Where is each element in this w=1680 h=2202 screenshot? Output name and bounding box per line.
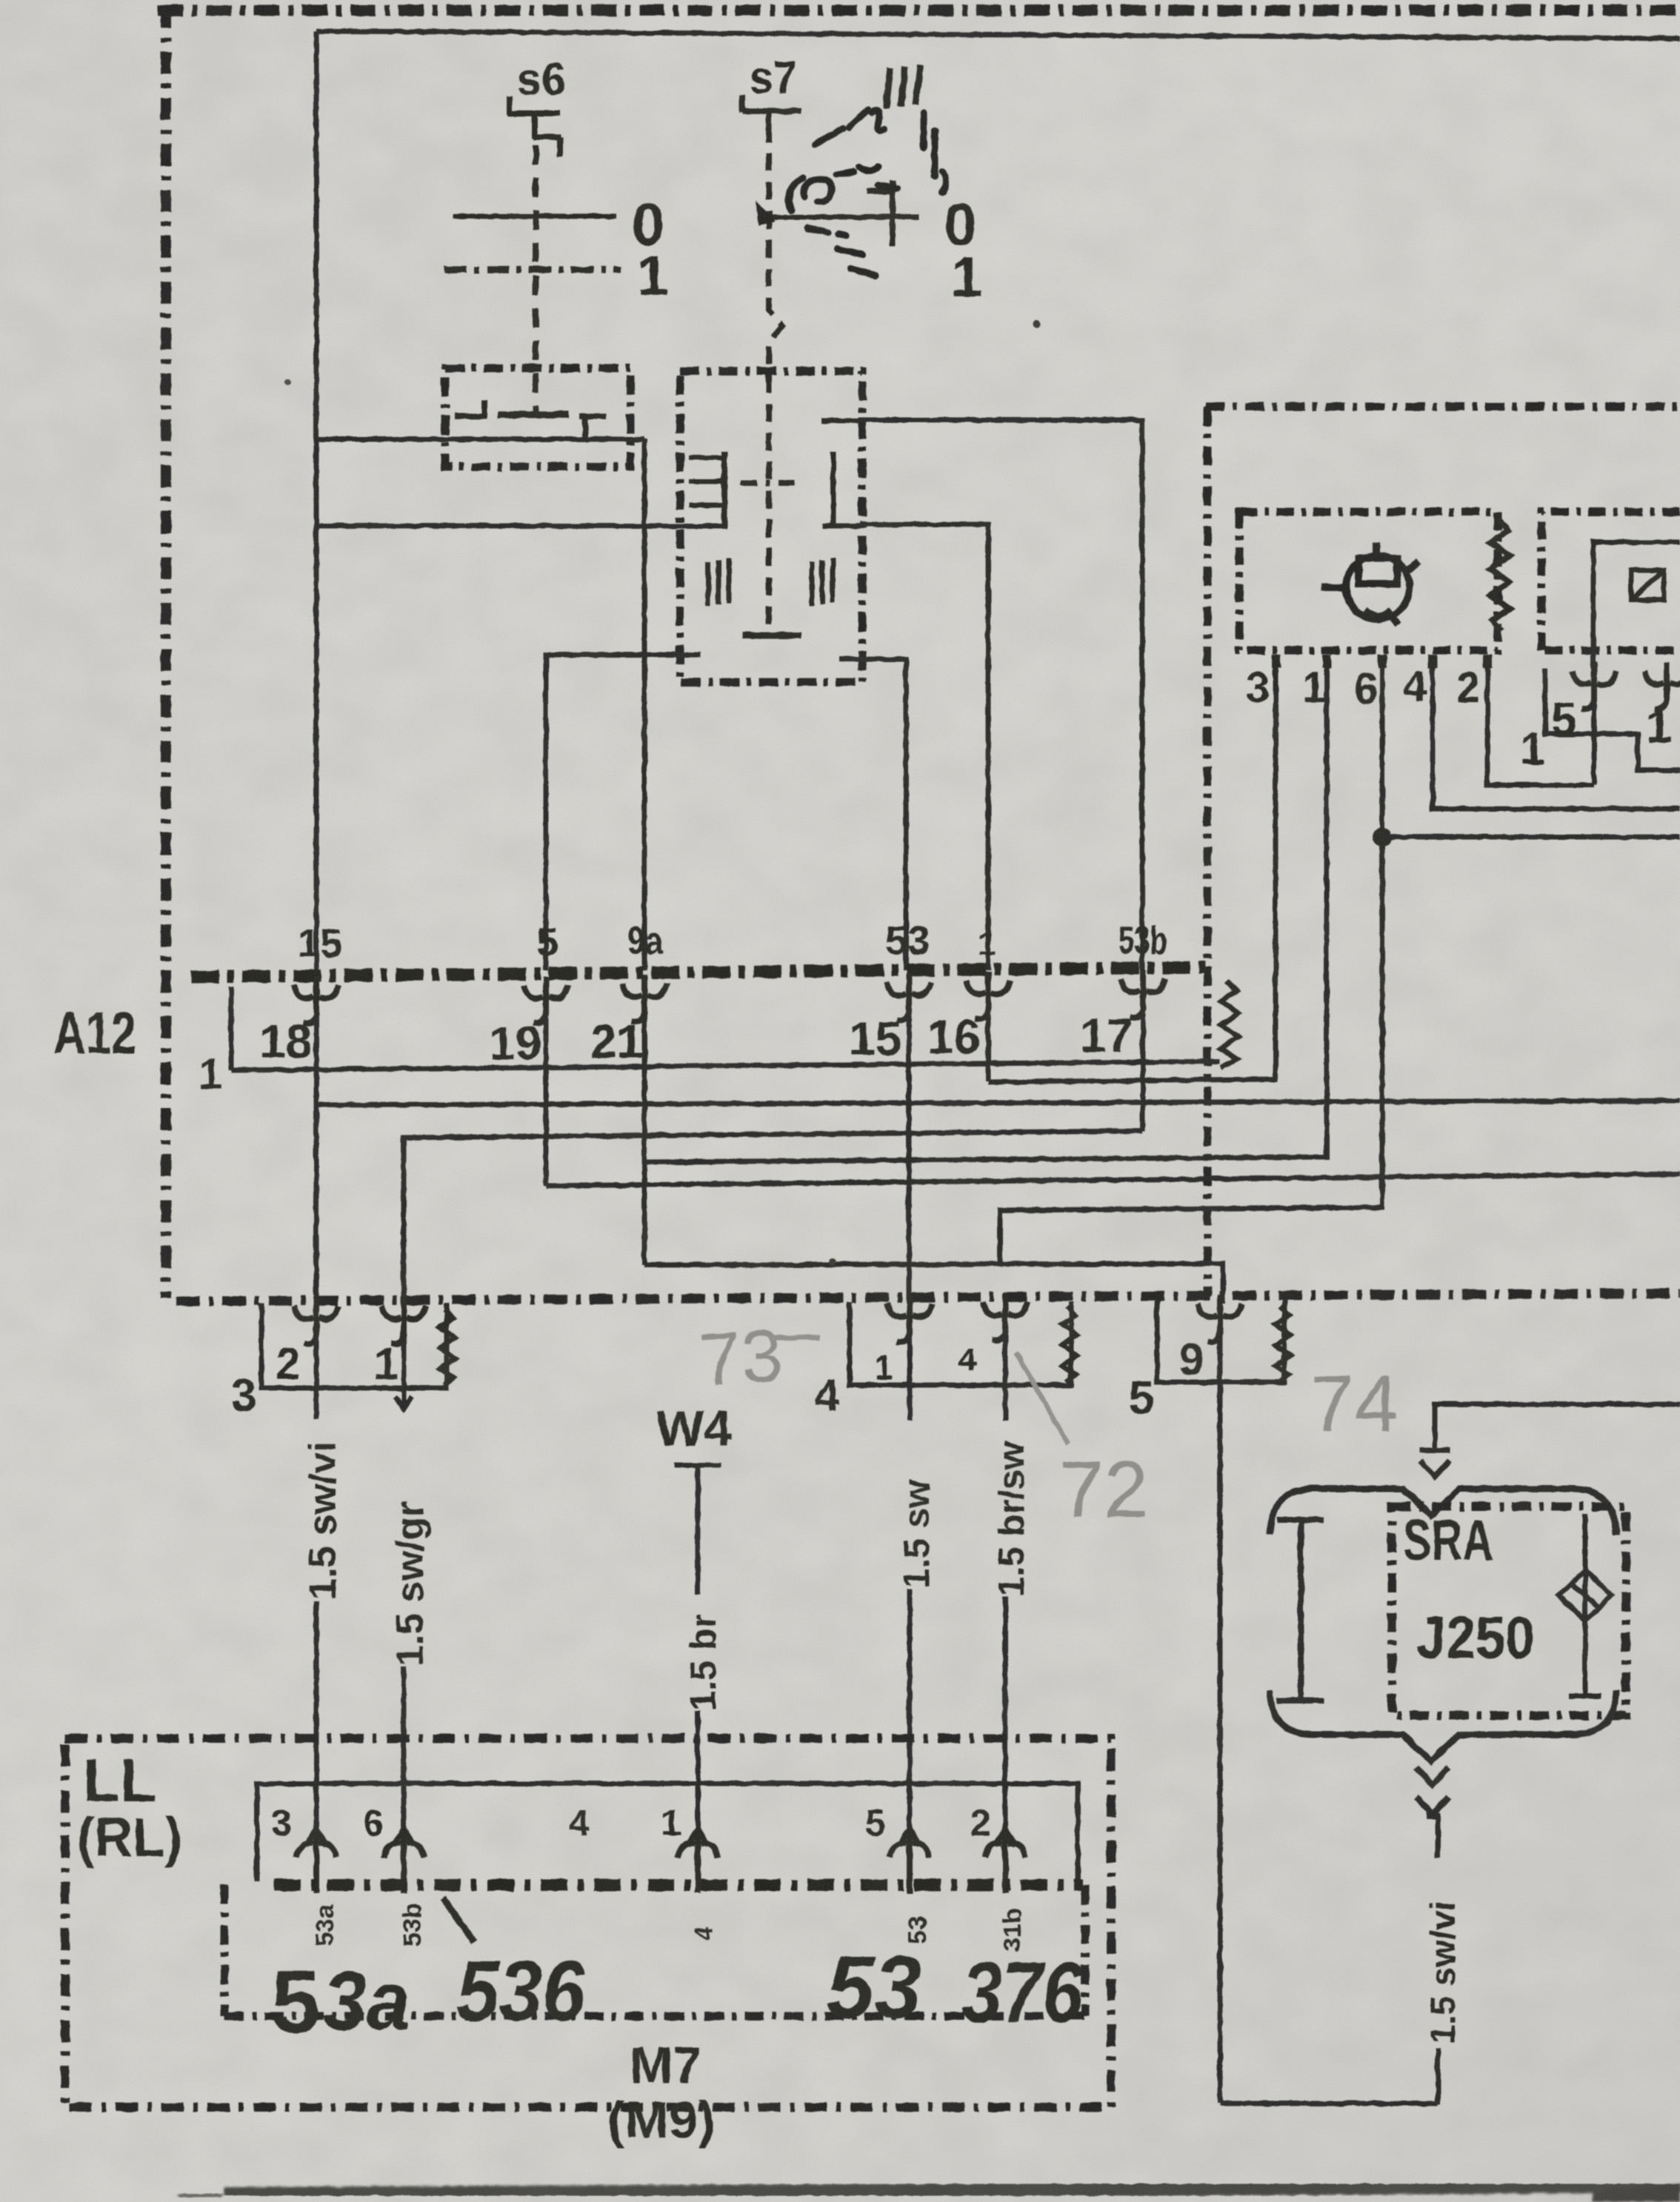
bracket pin (sw) connector bbox=[887, 1295, 932, 1342]
s7 unit internal dash-dot link bbox=[741, 480, 804, 486]
A12 box left dashed border bbox=[161, 6, 171, 1298]
M7 pin 3 arrow bbox=[296, 1829, 336, 1893]
bottom photo edge band bbox=[224, 2185, 1680, 2195]
W4 terminal bar bbox=[674, 1465, 721, 1594]
M7 connector dashed strip bbox=[274, 1879, 1083, 1891]
s7 terminal bracket bbox=[742, 95, 801, 126]
bracket pin (br/sw) connector bbox=[983, 1293, 1027, 1341]
heater pin 1 connector bbox=[1644, 662, 1680, 710]
wire sw upper segment bbox=[907, 1330, 913, 1421]
washer heater solid box bbox=[1593, 542, 1680, 668]
s7 position 0 line bbox=[758, 215, 919, 220]
SRA bottom bracket bbox=[1270, 1690, 1616, 1761]
bracket pin 9 connector bbox=[1198, 1295, 1242, 1342]
middle bracket resistor squiggle bbox=[1062, 1307, 1077, 1382]
LL box dash-dot outline bbox=[65, 1738, 1111, 2107]
s7 unit hatch marks right bbox=[812, 558, 833, 606]
s6 position 1 dash-dot line bbox=[444, 267, 621, 273]
pin 16 connector bbox=[966, 972, 1010, 1019]
A12 box right inner dash-dot border bbox=[1204, 407, 1212, 1296]
A12 box bottom dashed border bbox=[176, 1293, 1680, 1301]
wire sw lower segment bbox=[907, 1589, 913, 1829]
wire pin1 to resistor foot bbox=[231, 1061, 1219, 1070]
pin 15 connector bbox=[887, 973, 931, 1021]
motor pin4 wire bbox=[1433, 668, 1680, 809]
SRA top bracket bbox=[1270, 1489, 1616, 1535]
s6 terminal bracket bbox=[508, 96, 561, 156]
ink speck 3 bbox=[829, 1258, 836, 1266]
second unit dash-dot box bbox=[1541, 512, 1680, 650]
wire pin15 column bbox=[907, 1010, 912, 1304]
9a riser wire bbox=[642, 439, 647, 970]
heater pin 5 connector bbox=[1572, 662, 1616, 710]
s6 contact moving bar bbox=[498, 412, 569, 418]
SRA bottom chevrons bbox=[1416, 1767, 1449, 1816]
wire s7 unit to 5 riser bbox=[546, 655, 701, 970]
M7 pin 6 arrow bbox=[384, 1829, 424, 1893]
SRA dash-dot box bbox=[1392, 1507, 1626, 1715]
wire SRA drop lower bbox=[1436, 2049, 1441, 2104]
s7 illumination lamp scribble bbox=[761, 110, 946, 276]
handwritten tick bbox=[443, 1898, 474, 1942]
s7 dashed actuating rod with kink bbox=[769, 124, 782, 631]
pencil stroke above 72 bbox=[1016, 1352, 1068, 1444]
wire pin18 column bbox=[314, 1013, 319, 1304]
wiper motor symbol bbox=[1321, 542, 1419, 625]
SRA top connector chevron bbox=[1420, 1450, 1450, 1477]
heater element symbol bbox=[1631, 570, 1664, 600]
assembly box top border bbox=[1205, 403, 1680, 411]
motor pin2 wire bbox=[1487, 668, 1594, 785]
s7 unit right pin stubs bbox=[822, 421, 859, 527]
motor unit dash-dot box bbox=[1239, 512, 1498, 650]
A12 bus dash-dot strip bbox=[191, 967, 1209, 977]
wire pin17 to sw/gr drop bbox=[404, 1131, 1143, 1304]
s7 contact unit dash-dot box bbox=[680, 371, 862, 682]
wire pin9 down bbox=[1218, 1330, 1223, 2103]
I-bar symbol bbox=[1277, 1520, 1324, 1701]
resistor squiggle right of motor box bbox=[1490, 518, 1510, 631]
s6 contact unit dash-dot box bbox=[445, 368, 630, 467]
wire motor pin1 branch bbox=[644, 655, 1327, 1162]
wire pin17 drop bbox=[1141, 1013, 1146, 1131]
M7 pin 1 arrow bbox=[678, 1829, 718, 1893]
wire br/sw lower segment bbox=[1003, 1597, 1008, 1829]
pencil dash after 73 bbox=[769, 1335, 819, 1341]
pin 21 connector bbox=[622, 975, 667, 1022]
wire trunk to 9a riser bbox=[316, 437, 644, 442]
inner solid box bbox=[257, 1784, 1078, 1881]
right bracket resistor squiggle bbox=[1276, 1307, 1290, 1382]
ink speck 2 bbox=[284, 379, 290, 385]
top solid box edge bbox=[316, 31, 1680, 39]
s7 unit left feed bar bbox=[721, 452, 727, 529]
wire bottom run to SRA drop bbox=[1220, 2101, 1438, 2106]
wire sw/gr lower segment bbox=[401, 1666, 407, 1829]
wire sw/vi upper segment bbox=[314, 1332, 319, 1419]
M7 pin 5 arrow bbox=[890, 1829, 930, 1893]
s6 contact fixed terminal left bbox=[455, 400, 484, 419]
wire motor pin6 branch down bbox=[1000, 843, 1382, 1264]
heater bracket pocket bbox=[1545, 668, 1680, 770]
motor pin stubs bbox=[1276, 655, 1487, 668]
middle bracket outline bbox=[850, 1302, 1071, 1385]
left solid wire trunk (pin 15 riser) bbox=[314, 31, 319, 970]
heater pin5 wire bbox=[1592, 702, 1597, 785]
wire junction to right edge bbox=[1382, 835, 1680, 840]
wire pin19 to right edge bbox=[546, 1174, 1680, 1186]
faint pencil dash top bbox=[1099, 216, 1261, 224]
s7 rest contact cross bbox=[867, 180, 893, 246]
wire pin18 branch long bbox=[316, 1101, 1680, 1105]
wire s7 unit to 53b riser bbox=[858, 420, 1142, 970]
right bracket outline bbox=[1157, 1300, 1284, 1382]
M7 pin 2 arrow bbox=[985, 1829, 1025, 1893]
s7 unit contact bar bbox=[742, 633, 801, 639]
wire s7 unit to 1 riser bbox=[861, 524, 988, 970]
left bracket outline bbox=[261, 1304, 447, 1388]
A12 pin 1 corner wire bbox=[229, 987, 234, 1070]
M7 connector box sides bbox=[224, 1885, 1085, 2016]
wire sw/vi lower segment bbox=[314, 1601, 319, 1829]
wire pin16 drop bbox=[986, 1009, 991, 1081]
wire s7 unit to 53 riser bbox=[839, 659, 906, 970]
s6 contact fixed terminal right bbox=[579, 416, 606, 442]
wire pin21 column bbox=[642, 1012, 647, 1265]
bracket pin 2 connector bbox=[294, 1297, 339, 1344]
s7 position III tick marks bbox=[886, 65, 920, 108]
wire br lower segment bbox=[696, 1711, 701, 1829]
bracket pin 1 connector bbox=[381, 1297, 426, 1344]
pin 19 connector bbox=[524, 976, 568, 1024]
diode diamond symbol bbox=[1559, 1514, 1612, 1696]
wire br/sw upper segment bbox=[1003, 1329, 1008, 1421]
motor pin6 wire bbox=[1380, 668, 1385, 843]
resistor squiggle at bus right end bbox=[1221, 981, 1239, 1068]
wire SRA drop upper bbox=[1436, 1816, 1441, 1858]
s6 dashed actuating rod bbox=[533, 145, 539, 412]
s6 position 0 line bbox=[453, 214, 616, 219]
motor pin1 wire bbox=[1324, 668, 1330, 1157]
bracket resistor squiggle bbox=[440, 1309, 455, 1385]
s7 unit left pin stubs bbox=[689, 458, 724, 505]
wire sw/gr connector arrow bbox=[395, 1332, 413, 1409]
ink speck 1 bbox=[1033, 320, 1040, 327]
wire pin21 to pin9 bbox=[644, 1264, 1223, 1304]
wire trunk into s7 unit bbox=[316, 524, 724, 529]
s7 unit hatch marks left bbox=[708, 558, 729, 606]
junction dot bbox=[1373, 827, 1392, 847]
wire pin16 to motor pin3 bbox=[988, 668, 1276, 1082]
wire from right edge into SRA bbox=[1435, 1404, 1680, 1449]
pin 18 connector bbox=[294, 976, 339, 1024]
pin 17 connector bbox=[1121, 970, 1165, 1018]
wire pin19 column bbox=[544, 1013, 549, 1186]
A12 box top dashed border bbox=[158, 5, 1680, 16]
